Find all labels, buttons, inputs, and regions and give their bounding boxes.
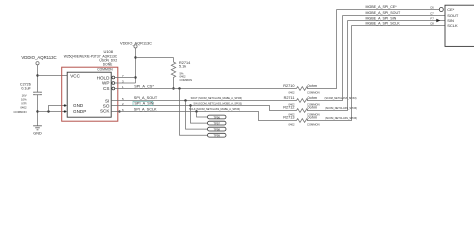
resistor R2712 bbox=[297, 109, 308, 113]
pin 3 WP bubble bbox=[112, 82, 115, 85]
svg-text:(SCOM_NETCLASS_SPI33): (SCOM_NETCLASS_SPI33) bbox=[325, 117, 357, 120]
wire CS to TP99 bbox=[180, 89, 208, 136]
svg-text:0402: 0402 bbox=[289, 91, 295, 95]
ground bbox=[33, 126, 42, 130]
svg-text:COMMON: COMMON bbox=[97, 67, 113, 71]
svg-text:TP97: TP97 bbox=[213, 122, 220, 126]
svg-text:C8: C8 bbox=[430, 22, 434, 26]
R2714 value labels bbox=[180, 71, 193, 81]
svg-text:TP96: TP96 bbox=[213, 115, 220, 119]
svg-text:SCK: SCK bbox=[100, 109, 110, 114]
pin 7 HOLD bubble bbox=[112, 76, 115, 79]
svg-text:0ohm: 0ohm bbox=[308, 106, 318, 110]
junction GND/GNDP tie bbox=[47, 110, 49, 112]
svg-text:R2710: R2710 bbox=[283, 84, 294, 88]
svg-text:GND: GND bbox=[73, 103, 84, 108]
junction HOLD bbox=[134, 76, 136, 78]
pin connection dots GND GNDP SCK bbox=[64, 104, 66, 106]
testpoint TP97 bbox=[208, 121, 227, 125]
svg-text:SPI_A_SIN: SPI_A_SIN bbox=[134, 102, 153, 106]
svg-text:CE*: CE* bbox=[447, 7, 455, 12]
wire GND pin jog bbox=[49, 106, 68, 112]
U108 pin names bbox=[70, 74, 110, 114]
connector pin SIN input arrow bbox=[436, 19, 440, 23]
wire SOUT to TP98 bbox=[186, 101, 208, 130]
svg-text:MGBE_A_SPI_SCLK: MGBE_A_SPI_SCLK bbox=[366, 21, 401, 25]
testpoint TP99 bbox=[208, 133, 227, 137]
svg-text:HOLD: HOLD bbox=[97, 75, 110, 80]
pin numbers right side bbox=[122, 74, 124, 112]
svg-text:TP99: TP99 bbox=[213, 134, 220, 138]
svg-text:SPI_A_CS*: SPI_A_CS* bbox=[134, 85, 154, 89]
junction SOUT testpoint drop bbox=[184, 99, 186, 101]
wire R2713 out bbox=[307, 26, 352, 121]
capacitor C2726 bbox=[33, 92, 42, 95]
svg-text:GNDP: GNDP bbox=[73, 109, 86, 114]
svg-text:C7: C7 bbox=[430, 12, 434, 16]
svg-text:VDDIO_AQR113C: VDDIO_AQR113C bbox=[21, 55, 56, 60]
svg-text:0ohm: 0ohm bbox=[308, 84, 318, 88]
svg-text:F7: F7 bbox=[430, 17, 434, 21]
svg-text:SCLK: SCLK bbox=[447, 23, 458, 28]
svg-text:0ohm: 0ohm bbox=[308, 96, 318, 100]
wire to R2714 top bbox=[136, 57, 174, 59]
wire VDDIO mid vertical bbox=[135, 48, 137, 83]
wire R2712 out bbox=[307, 21, 348, 111]
svg-text:TP98: TP98 bbox=[213, 128, 220, 132]
svg-text:DONE: DONE bbox=[103, 63, 113, 67]
flash memory U108 highlight box bbox=[62, 67, 118, 121]
connector pin CE* bubble bbox=[439, 8, 443, 12]
resistor R2714 bbox=[171, 58, 175, 89]
junction CS testpoint drop bbox=[178, 87, 180, 89]
svg-text:GND: GND bbox=[33, 132, 42, 136]
svg-text:SPI_A_SCLK: SPI_A_SCLK bbox=[134, 107, 157, 111]
svg-text:R2712: R2712 bbox=[283, 106, 294, 110]
svg-text:SOUT (SCOM_NETCLASS_MGBE_A_SPI: SOUT (SCOM_NETCLASS_MGBE_A_SPI33) bbox=[191, 97, 243, 100]
resistor R2713 bbox=[297, 119, 308, 123]
U108 part number labels bbox=[64, 55, 118, 72]
wire VDDIO vertical to GND bbox=[37, 65, 39, 126]
wire HOLD pin bbox=[115, 77, 136, 79]
svg-text:C6: C6 bbox=[430, 6, 434, 10]
resistor R2710 bbox=[297, 87, 308, 91]
svg-text:CS: CS bbox=[103, 86, 109, 91]
wire WP pin bbox=[115, 82, 136, 84]
svg-text:MGBE_A_SPI_SIN: MGBE_A_SPI_SIN bbox=[366, 16, 397, 20]
junction to R2714 bbox=[134, 56, 136, 58]
wire to VCC pin bbox=[38, 75, 68, 77]
svg-text:U108: U108 bbox=[103, 49, 113, 54]
net MGBE_A_SPI_SOUT bbox=[343, 15, 446, 17]
svg-text:SIN (SCOM_NETCLASS_MGBE_A_SPI3: SIN (SCOM_NETCLASS_MGBE_A_SPI33) bbox=[193, 102, 242, 105]
svg-text:0ohm: 0ohm bbox=[308, 116, 318, 120]
junction GNDP wire bbox=[36, 110, 38, 112]
svg-text:R2711: R2711 bbox=[284, 96, 295, 100]
net SPI_A_SOUT bbox=[111, 100, 296, 102]
svg-text:WP: WP bbox=[102, 81, 109, 86]
svg-text:0402: 0402 bbox=[289, 122, 295, 126]
pin 1 CS bubble bbox=[112, 87, 115, 90]
net MGBE_A_SPI_SCLK bbox=[352, 25, 446, 27]
connector pin numbers bbox=[430, 6, 434, 26]
junction SIN testpoint drop bbox=[189, 104, 191, 106]
net SPI_A_SIN bbox=[111, 106, 296, 111]
svg-text:COMMON: COMMON bbox=[307, 91, 320, 95]
svg-text:COMMON: COMMON bbox=[14, 110, 27, 114]
testpoint TP98 bbox=[208, 127, 227, 131]
svg-text:MGBE_A_SPI_SOUT: MGBE_A_SPI_SOUT bbox=[366, 11, 402, 15]
net MGBE_A_SPI_CE* bbox=[337, 9, 440, 11]
net MGBE_A_SPI_SIN bbox=[348, 20, 446, 22]
net SPI_A_CS* bbox=[115, 88, 297, 90]
net SPI_A_SCLK bbox=[111, 112, 296, 121]
wire R2711 out bbox=[307, 16, 343, 101]
svg-text:COMMON: COMMON bbox=[307, 122, 320, 126]
svg-text:COMMON: COMMON bbox=[180, 78, 193, 82]
junction VDDIO/VCC bbox=[36, 74, 38, 76]
junction R2714/CS net bbox=[172, 87, 174, 89]
svg-text:MGBE_A_SPI_CE*: MGBE_A_SPI_CE* bbox=[366, 5, 398, 9]
wire R2710 out bbox=[307, 10, 337, 89]
junction SCLK testpoint drop bbox=[195, 110, 197, 112]
svg-text:R2713: R2713 bbox=[283, 116, 294, 120]
svg-text:(SCOM_NETCLASS_SPI33): (SCOM_NETCLASS_SPI33) bbox=[325, 107, 357, 110]
connector body bbox=[445, 5, 474, 46]
svg-text:SPI_A_SOUT: SPI_A_SOUT bbox=[134, 96, 158, 100]
resistor R2711 bbox=[297, 99, 308, 103]
wire GNDP to rail bbox=[38, 111, 68, 113]
svg-text:5.1k: 5.1k bbox=[179, 65, 186, 69]
testpoint TP96 bbox=[208, 115, 227, 119]
svg-text:0.1uF: 0.1uF bbox=[21, 87, 31, 91]
wire SIN to TP97 bbox=[191, 106, 208, 124]
power symbol VDDIO_AQR113C (left) bbox=[21, 55, 56, 65]
connector pin names bbox=[447, 7, 459, 28]
flash memory U108 body bbox=[67, 72, 111, 117]
capacitor C2726 value labels bbox=[14, 94, 28, 114]
wire SCLK to TP96 bbox=[197, 112, 208, 118]
svg-text:VCC: VCC bbox=[70, 74, 80, 79]
